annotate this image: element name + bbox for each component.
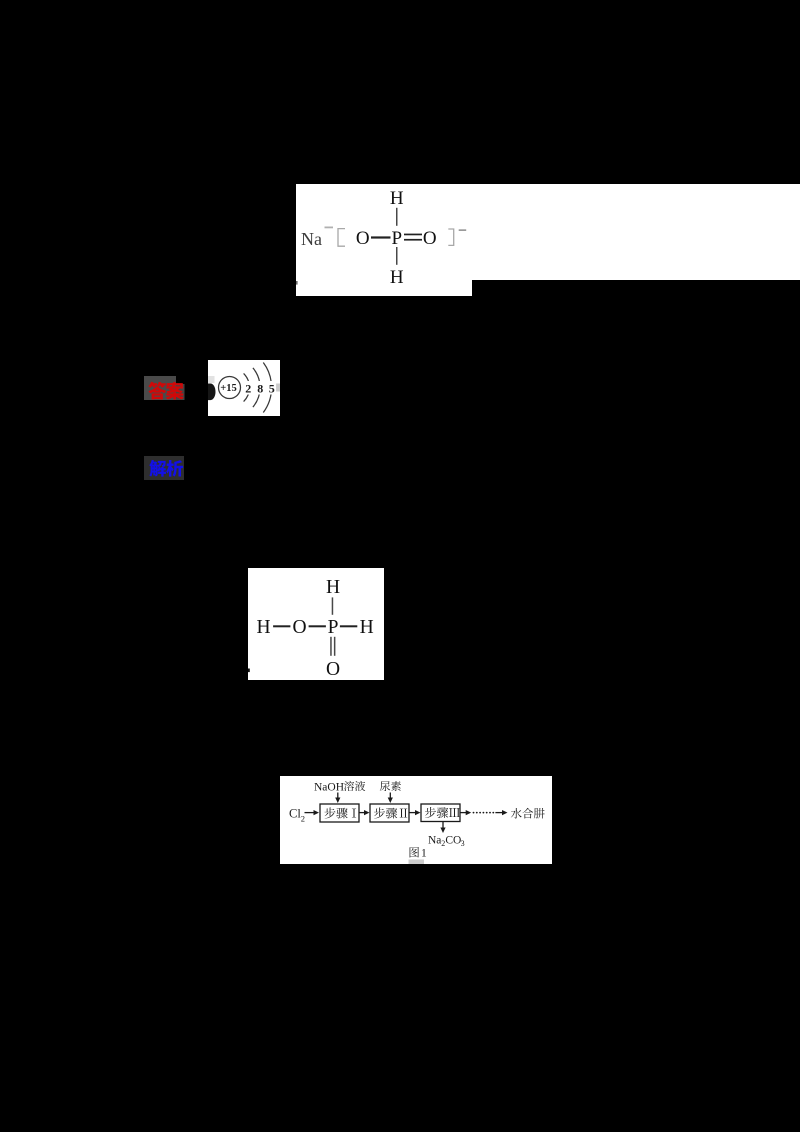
- svg-text:2: 2: [245, 381, 251, 395]
- bond P-H vertical bottom: [396, 247, 398, 265]
- svg-text:Na: Na: [428, 834, 441, 846]
- svg-text:NaOH: NaOH: [314, 782, 344, 794]
- white panel: hypophosphorous acid structure: [248, 568, 384, 680]
- bond P-H: [340, 625, 357, 627]
- svg-text:Na: Na: [301, 229, 322, 249]
- svg-text:1: 1: [421, 847, 427, 859]
- svg-text:8: 8: [257, 381, 263, 395]
- white panel: hydrazine hydrate flow diagram: [280, 776, 552, 864]
- double bond P=O: [404, 234, 422, 236]
- bond H-O: [273, 625, 290, 627]
- white panel: phosphorus atom structure: [208, 360, 280, 416]
- edge artifact on acid panel: [248, 669, 250, 673]
- step III text: [425, 807, 436, 818]
- edge artifact on sodium panel: [296, 281, 298, 285]
- step II text: [374, 807, 385, 818]
- arrow NaOH into step I: [337, 793, 339, 799]
- light artifact right: [276, 384, 280, 392]
- figure caption 图1: [410, 847, 419, 857]
- svg-text:+15: +15: [220, 383, 236, 394]
- bond O-P: [371, 236, 391, 238]
- double bond P=O vertical: [330, 637, 332, 656]
- answer label background: [144, 376, 176, 400]
- superscript minus charge: [459, 229, 467, 231]
- arrow out of step III: [461, 812, 467, 814]
- svg-text:P: P: [328, 617, 339, 638]
- right bracket: [448, 229, 453, 245]
- white panel: sodium hypophosphite structure: [296, 184, 800, 280]
- arrow to product: [495, 812, 503, 814]
- electron shell arc 2: [253, 368, 260, 407]
- svg-text:P: P: [392, 228, 403, 249]
- svg-text:H: H: [360, 617, 374, 638]
- svg-text:CO: CO: [445, 834, 461, 846]
- left bracket: [338, 229, 345, 247]
- svg-text:2: 2: [301, 814, 305, 824]
- electron shell arc 1: [244, 373, 250, 401]
- svg-text:O: O: [356, 228, 370, 249]
- svg-text:O: O: [326, 659, 340, 680]
- electron shell arc 3: [263, 363, 271, 413]
- svg-text:H: H: [390, 267, 404, 288]
- nucleus circle: [219, 377, 241, 399]
- arrow urea into step II: [389, 793, 391, 799]
- svg-text:H: H: [257, 617, 271, 638]
- arrow step II to step III: [410, 812, 417, 814]
- step II box: [370, 804, 409, 822]
- svg-text:Cl: Cl: [289, 807, 301, 821]
- reagent label urea: [380, 781, 390, 791]
- shell electron counts: [244, 381, 253, 395]
- bond O-P: [309, 625, 326, 627]
- svg-text:H: H: [390, 188, 404, 209]
- svg-text:3: 3: [461, 839, 465, 848]
- light artifact left: [208, 376, 215, 383]
- superscript charge on Na: [325, 227, 334, 229]
- step III box: [421, 804, 460, 822]
- arrow step III down to Na2CO3: [442, 822, 444, 829]
- bond H-P vertical top: [396, 208, 398, 226]
- product label hydrazine hydrate: [511, 808, 522, 819]
- svg-text:O: O: [423, 228, 437, 249]
- svg-text:H: H: [326, 577, 340, 598]
- answer label text (red): [148, 382, 166, 400]
- arrow step I to step II: [360, 812, 366, 814]
- svg-text:5: 5: [269, 381, 275, 395]
- svg-text:O: O: [292, 617, 306, 638]
- arrow Cl2 to step I: [305, 812, 315, 814]
- bond H-P vertical: [332, 597, 334, 614]
- dark blob at left edge: [208, 384, 216, 401]
- dotted line: [473, 812, 475, 814]
- step I text: [324, 807, 335, 818]
- light artifact bottom: [409, 860, 425, 865]
- analysis label text (blue): [149, 460, 166, 477]
- analysis label background: [144, 456, 184, 480]
- step I box: [320, 804, 359, 822]
